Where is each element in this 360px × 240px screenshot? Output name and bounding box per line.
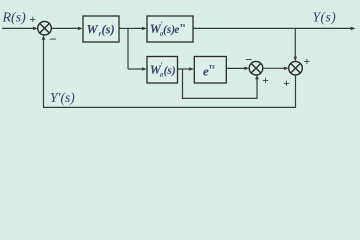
block e^-ts [194,57,226,84]
wire junction to bottom W0 block [128,68,143,70]
wire tap down to summer3 [294,28,296,57]
svg-text:R(s): R(s) [2,10,27,25]
wire top block to Y(s) output [193,27,352,29]
arrowhead into summer2 bottom [255,75,259,80]
svg-text:′: ′ [161,61,163,70]
wire Wr output to junction [119,27,128,29]
svg-text:Y′(s): Y′(s) [50,90,75,105]
svg-text:+: + [283,78,290,90]
summer 1 [38,21,52,35]
svg-text:τs: τs [180,22,186,29]
arrowhead Y(s) output [351,27,356,31]
wire summer2 to summer3 [263,67,285,69]
wire W0 to e-block [178,68,191,70]
arrowhead into summer1 bottom [42,35,46,40]
arrowhead into top block [142,27,147,31]
block W0'(s) [147,57,178,84]
arrowhead into bottom W0 block [142,67,147,71]
arrowhead into summer3 top [294,57,298,62]
arrowhead into summer3 left [284,67,289,71]
svg-text:+: + [30,14,37,26]
svg-text:+: + [304,56,311,68]
wire junction to top block [128,27,143,29]
wire R(s) input to summer 1 [2,27,35,29]
arrowhead into summer1 [33,27,38,31]
svg-text:−: − [245,52,252,67]
svg-text:−: − [49,32,56,47]
summer 2 [249,61,263,75]
arrowhead into e-block [189,67,194,71]
arrowhead into Wr [78,27,83,31]
node bypass junction [183,69,258,98]
svg-text:Y(s): Y(s) [313,9,337,24]
block Wr(s) [83,16,119,42]
svg-text:e: e [174,24,179,36]
svg-text:+: + [262,75,269,87]
wire summer3 down and feedback to summer1 [44,39,296,107]
node branch junction after Wr [127,28,129,69]
svg-text:(s): (s) [164,65,176,77]
block W0'(s)e^-ts [147,16,193,42]
wire e-block to summer2 [226,67,245,69]
svg-text:(s): (s) [102,23,115,37]
arrowhead into summer2 left [244,67,249,71]
svg-text:W: W [87,23,99,37]
svg-text:τs: τs [209,63,215,71]
wire summer1 to Wr block [51,27,79,29]
summer 3 [289,61,303,75]
